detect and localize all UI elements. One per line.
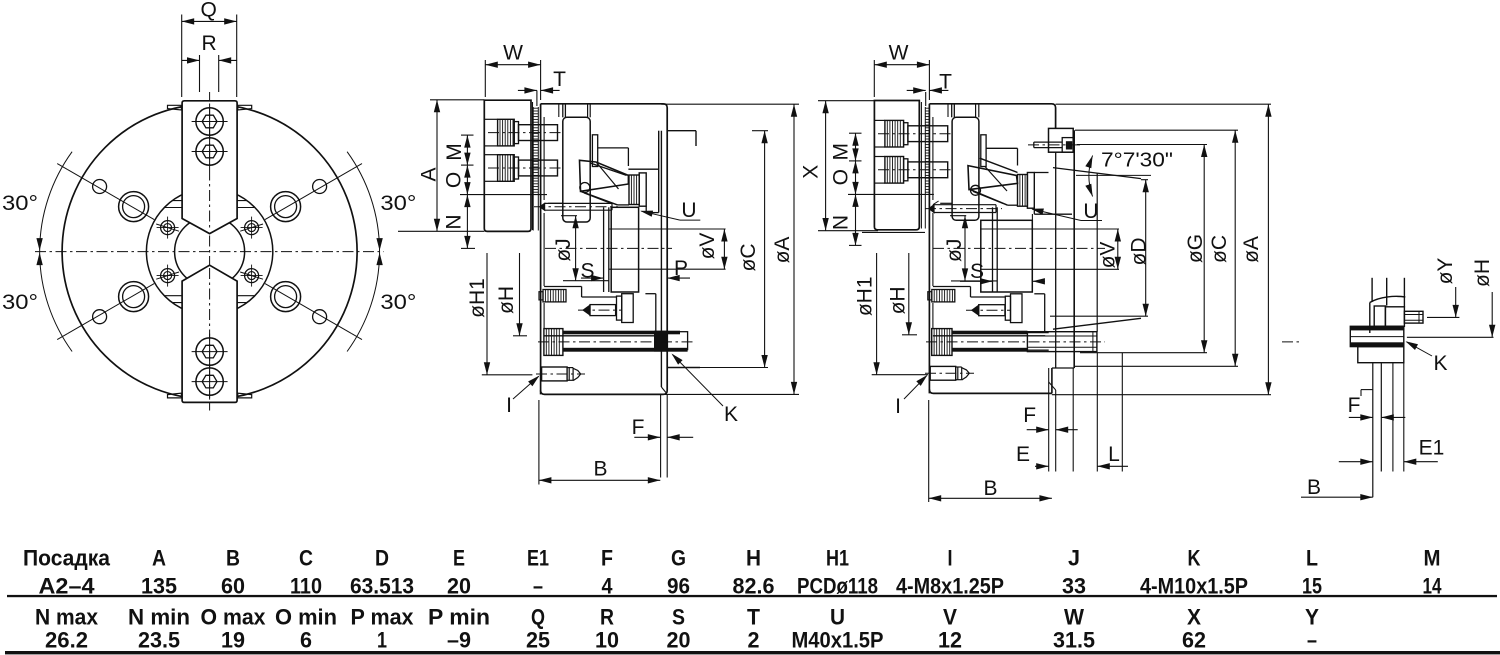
mounting hole (left top)	[119, 192, 149, 222]
front view: chuck body outer circle	[62, 104, 357, 399]
dim W	[485, 64, 540, 66]
svg-text:O max: O max	[201, 605, 267, 630]
svg-text:øV: øV	[1097, 242, 1120, 269]
svg-text:B: B	[226, 546, 240, 571]
wedge pivot	[971, 185, 981, 195]
jaw clamping screw	[196, 338, 223, 365]
svg-text:N min: N min	[128, 605, 190, 630]
dims M O N	[855, 133, 857, 245]
svg-text:W: W	[889, 42, 909, 65]
bolt K shaft	[1404, 311, 1423, 323]
dim oV	[723, 229, 725, 269]
small pilot hole	[93, 310, 107, 324]
bore reference lines	[950, 215, 966, 217]
dim oV	[1117, 229, 1119, 269]
svg-text:Посадка: Посадка	[23, 546, 111, 571]
svg-text:N: N	[442, 214, 465, 229]
mounting hole (right bottom)	[271, 282, 301, 312]
svg-text:P: P	[674, 257, 688, 280]
radial line upper-left 30deg	[68, 170, 155, 220]
oA extension lines	[661, 103, 799, 105]
jaw clamping screw	[196, 108, 223, 135]
axis stub	[1282, 341, 1302, 343]
dim B extension	[928, 400, 930, 502]
svg-text:PCDø118: PCDø118	[797, 573, 878, 598]
oC reference lines	[1075, 129, 1238, 131]
svg-text:X: X	[800, 165, 823, 179]
svg-text:4: 4	[602, 573, 614, 598]
master jaw block	[951, 104, 953, 118]
spindle adapter right face	[1073, 130, 1075, 368]
dim R	[182, 59, 200, 61]
svg-text:øA: øA	[771, 237, 794, 264]
draw nut (U)	[1018, 175, 1028, 207]
small pilot hole	[313, 310, 327, 324]
svg-text:O: O	[442, 172, 465, 188]
jaw serration strip	[924, 107, 926, 194]
svg-text:10: 10	[595, 628, 619, 653]
jaw mounting screw (section)	[874, 119, 885, 121]
svg-text:31.5: 31.5	[1053, 628, 1095, 653]
small pilot hole	[313, 180, 327, 194]
dim B	[929, 497, 1052, 499]
body front face	[540, 104, 542, 395]
hub bore circle	[175, 217, 245, 287]
jaw centerline	[209, 108, 211, 230]
mounting hole (left bottom)	[119, 282, 149, 312]
svg-text:A: A	[418, 167, 441, 181]
svg-text:M40x1.5P: M40x1.5P	[792, 628, 884, 653]
bore reference lines	[561, 215, 577, 217]
svg-text:33: 33	[1062, 573, 1086, 598]
svg-text:19: 19	[221, 628, 245, 653]
svg-text:M: M	[1424, 546, 1441, 571]
svg-text:P max: P max	[351, 605, 415, 630]
dim B	[539, 479, 660, 481]
hub screw	[161, 221, 175, 235]
svg-text:20: 20	[447, 573, 471, 598]
wedge lower face	[970, 189, 1008, 205]
svg-text:12: 12	[938, 628, 962, 653]
svg-text:U: U	[1083, 200, 1098, 223]
svg-text:U: U	[681, 199, 696, 222]
radial line lower-left 30deg	[68, 284, 155, 334]
svg-text:W: W	[1064, 605, 1084, 630]
svg-text:96: 96	[667, 573, 690, 598]
dim T	[925, 92, 927, 106]
30deg dimension arc	[347, 152, 379, 352]
svg-text:I: I	[895, 395, 901, 418]
svg-text:Q: Q	[201, 0, 217, 22]
svg-text:T: T	[747, 605, 761, 630]
svg-text:U: U	[830, 605, 845, 630]
svg-text:Y: Y	[1305, 605, 1319, 630]
dim oG	[1203, 145, 1205, 353]
svg-text:D: D	[375, 546, 389, 571]
svg-text:T: T	[939, 71, 952, 94]
jaw clamping screw	[196, 138, 223, 165]
dim X reference lines	[818, 100, 874, 102]
oV reference lines	[609, 228, 726, 230]
svg-text:62: 62	[1182, 628, 1206, 653]
radial line upper-right 30deg	[265, 170, 352, 220]
svg-text:C: C	[299, 546, 313, 571]
svg-text:E: E	[453, 546, 465, 571]
bottom jaw block	[182, 265, 237, 402]
back plate front face below bracket	[1055, 152, 1057, 368]
svg-text:S: S	[580, 260, 594, 283]
wedge cavity upper wall	[975, 104, 977, 118]
taper face lower	[1053, 318, 1141, 329]
oA reference lines	[1056, 103, 1271, 105]
svg-text:–9: –9	[447, 628, 471, 653]
svg-text:T: T	[553, 68, 566, 91]
oD reference lines	[1141, 179, 1148, 181]
svg-text:øV: øV	[696, 233, 719, 260]
dim oC	[1234, 130, 1236, 366]
dim X	[825, 101, 827, 231]
30deg arc arrowheads	[376, 238, 382, 251]
svg-text:63.513: 63.513	[350, 573, 414, 598]
dim oH (detail)	[1491, 292, 1493, 337]
svg-text:4-M8x1.25P: 4-M8x1.25P	[896, 573, 1004, 598]
jaw mounting screw (section)	[484, 118, 497, 120]
dim W extension lines	[873, 60, 875, 97]
wedge pivot	[580, 183, 590, 193]
master jaw block	[562, 104, 564, 118]
back plate front face	[660, 131, 662, 387]
dim E1	[1339, 461, 1373, 463]
lower compartment	[544, 286, 582, 288]
svg-text:øJ: øJ	[943, 239, 966, 262]
collar block	[1358, 347, 1404, 363]
dim B extension	[538, 400, 540, 485]
svg-text:–: –	[1307, 628, 1317, 653]
dim A	[436, 100, 438, 231]
svg-text:P min: P min	[428, 605, 490, 630]
wedge cavity upper wall	[587, 104, 589, 118]
wedge lower face	[581, 191, 618, 205]
svg-text:øA: øA	[1240, 236, 1263, 263]
svg-text:15: 15	[1302, 573, 1322, 598]
svg-text:20: 20	[667, 628, 691, 653]
section axis centerline	[933, 247, 1105, 249]
dim oJ	[964, 216, 966, 281]
chuck mounting bolt (section, lower)	[544, 329, 563, 356]
svg-text:øH: øH	[1471, 259, 1494, 287]
plunger pin	[972, 305, 979, 315]
locating pin	[929, 205, 934, 213]
svg-text:øD: øD	[1128, 238, 1151, 266]
top jaw block	[182, 101, 237, 234]
dim oH1	[486, 253, 488, 375]
svg-text:30°: 30°	[380, 291, 416, 314]
svg-text:A2–4: A2–4	[39, 573, 96, 598]
wedge block	[580, 160, 629, 191]
svg-text:W: W	[503, 42, 523, 65]
dim S	[960, 280, 993, 282]
radial line lower-right 30deg	[265, 284, 352, 334]
bolt K head	[1374, 306, 1385, 326]
svg-text:F: F	[1348, 394, 1361, 417]
svg-text:L: L	[1108, 443, 1120, 466]
svg-text:F: F	[1023, 404, 1036, 427]
mounting hole (right top)	[271, 192, 301, 222]
dim oH	[519, 253, 521, 336]
back plate edges below	[1048, 368, 1050, 472]
table rule mid	[7, 595, 1497, 597]
dim A reference line	[430, 99, 484, 101]
svg-text:110: 110	[290, 573, 322, 598]
hub outer circle	[146, 188, 272, 314]
jaw mounting screw (section)	[874, 156, 885, 158]
svg-text:G: G	[671, 546, 686, 571]
jaw stroke reference line	[848, 193, 934, 195]
set screw I	[930, 366, 956, 380]
svg-text:25: 25	[526, 628, 550, 653]
30deg arc arrowheads	[36, 238, 42, 251]
adjusting screw (knurled)	[928, 292, 932, 300]
table rule bottom	[5, 651, 1500, 654]
dim oC	[764, 131, 766, 368]
dim oH1	[876, 253, 878, 375]
svg-text:26.2: 26.2	[45, 628, 88, 653]
rear register step	[667, 130, 696, 132]
oG reference lines	[1077, 144, 1207, 146]
set screw I	[542, 367, 568, 381]
svg-text:R: R	[202, 32, 217, 55]
svg-text:V: V	[943, 605, 957, 630]
svg-text:K: K	[724, 403, 738, 426]
svg-text:øG: øG	[1184, 234, 1207, 263]
svg-text:øY: øY	[1434, 258, 1457, 285]
body front face	[928, 104, 930, 394]
svg-text:H: H	[746, 546, 761, 571]
body bottom	[929, 389, 1052, 393]
body outline top/right/bottom	[541, 104, 668, 395]
svg-text:K: K	[1188, 546, 1201, 571]
svg-text:R: R	[600, 605, 614, 630]
svg-text:135: 135	[141, 573, 177, 598]
stud G bolt	[1034, 141, 1062, 143]
svg-text:øH: øH	[495, 286, 518, 314]
svg-text:30°: 30°	[380, 192, 416, 215]
svg-text:1: 1	[377, 628, 387, 653]
washer stack	[1350, 326, 1404, 346]
spindle bore edge	[1096, 173, 1098, 332]
draw collar	[992, 207, 994, 292]
dim oY	[1455, 287, 1457, 317]
svg-text:øH1: øH1	[854, 276, 877, 316]
locating pin	[540, 203, 545, 210]
svg-text:–: –	[533, 573, 543, 598]
bolt thread into spindle	[1027, 332, 1097, 352]
dim F	[1349, 416, 1373, 418]
dims M O N	[466, 135, 468, 248]
oY reference line	[1427, 316, 1459, 318]
dim F	[634, 436, 660, 438]
svg-text:B: B	[593, 458, 607, 481]
draw collar	[603, 207, 605, 292]
dim T	[536, 90, 538, 106]
svg-text:E: E	[1016, 443, 1030, 466]
svg-text:I: I	[948, 546, 953, 571]
svg-text:A: A	[152, 546, 166, 571]
dim E / L	[1035, 465, 1049, 467]
dim oH	[908, 253, 910, 335]
dim Q extension lines	[181, 15, 183, 98]
draw nut (U)	[629, 175, 639, 205]
B/F extension lines below body	[660, 394, 662, 477]
svg-text:øH: øH	[887, 286, 910, 314]
svg-text:2: 2	[748, 628, 760, 653]
svg-text:L: L	[1306, 546, 1318, 571]
dim S / P	[581, 277, 604, 279]
small pilot hole	[93, 180, 107, 194]
draw tube top	[1371, 278, 1373, 302]
draw tube	[1372, 363, 1374, 498]
svg-text:B: B	[1307, 476, 1321, 499]
front view vertical centerline	[209, 92, 211, 411]
svg-text:øH1: øH1	[466, 278, 489, 318]
dim B	[1301, 496, 1373, 498]
oC extension lines	[752, 130, 768, 132]
wedge block	[968, 166, 1018, 190]
svg-text:J: J	[1068, 546, 1080, 571]
jaw block	[484, 100, 531, 231]
jaw block	[874, 101, 919, 230]
svg-text:O min: O min	[275, 605, 337, 630]
svg-text:23.5: 23.5	[138, 628, 180, 653]
jaw clamping screw	[196, 368, 223, 395]
jaw stroke reference line	[460, 194, 547, 196]
dim W extension lines	[484, 60, 486, 97]
svg-text:S: S	[672, 605, 685, 630]
svg-text:X: X	[1187, 605, 1201, 630]
svg-text:14: 14	[1423, 573, 1443, 598]
svg-text:øJ: øJ	[552, 238, 575, 261]
svg-text:60: 60	[221, 573, 245, 598]
svg-text:6: 6	[300, 628, 312, 653]
svg-text:30°: 30°	[2, 291, 38, 314]
7deg taper face	[1053, 168, 1141, 179]
svg-text:H1: H1	[826, 546, 849, 571]
dim F	[1027, 429, 1049, 431]
svg-text:F: F	[632, 416, 645, 439]
body outline top	[929, 104, 1055, 129]
dim R extension lines	[199, 55, 201, 92]
svg-text:S: S	[970, 260, 984, 283]
svg-text:82.6: 82.6	[733, 573, 775, 598]
svg-text:4-M10x1.5P: 4-M10x1.5P	[1140, 573, 1248, 598]
svg-text:E1: E1	[527, 546, 549, 571]
plunger pin	[583, 305, 590, 315]
dim oA	[1267, 104, 1269, 395]
dim W	[874, 64, 929, 66]
dim Q	[182, 20, 237, 22]
hub chord lines	[172, 200, 247, 202]
front view horizontal centerline	[35, 251, 384, 253]
jaw mounting screw (section)	[484, 154, 497, 156]
svg-text:M: M	[830, 143, 853, 161]
svg-text:O: O	[830, 169, 853, 185]
hub screw	[245, 221, 259, 235]
angle dim 7 7 30	[1076, 174, 1151, 176]
svg-text:N: N	[830, 215, 853, 230]
lower compartment	[933, 286, 971, 288]
hub screw	[161, 269, 175, 283]
svg-text:N max: N max	[35, 605, 99, 630]
chuck mounting bolt (section, engaged)	[932, 329, 952, 356]
svg-text:7°7'30": 7°7'30"	[1101, 150, 1173, 172]
oH reference line	[1407, 336, 1494, 338]
svg-text:M: M	[443, 143, 466, 161]
jaw side tabs	[168, 105, 182, 110]
section axis centerline	[545, 247, 672, 249]
svg-text:30°: 30°	[2, 192, 38, 215]
svg-text:F: F	[601, 546, 613, 571]
dim oA	[793, 104, 795, 394]
top stud bracket	[1049, 128, 1074, 152]
svg-text:Q: Q	[531, 605, 545, 630]
oV reference lines	[980, 228, 1119, 230]
svg-text:øC: øC	[1208, 235, 1231, 263]
dim oD	[1145, 180, 1147, 317]
dim oJ	[575, 216, 577, 281]
svg-text:I: I	[506, 394, 512, 417]
svg-text:øC: øC	[737, 244, 760, 272]
adjusting screw (knurled)	[539, 292, 543, 300]
svg-text:B: B	[983, 477, 997, 500]
jaw serration strip	[532, 107, 534, 195]
30deg dimension arc	[40, 152, 72, 352]
hub screw	[245, 269, 259, 283]
svg-text:K: K	[1433, 352, 1447, 375]
svg-text:E1: E1	[1419, 437, 1445, 460]
